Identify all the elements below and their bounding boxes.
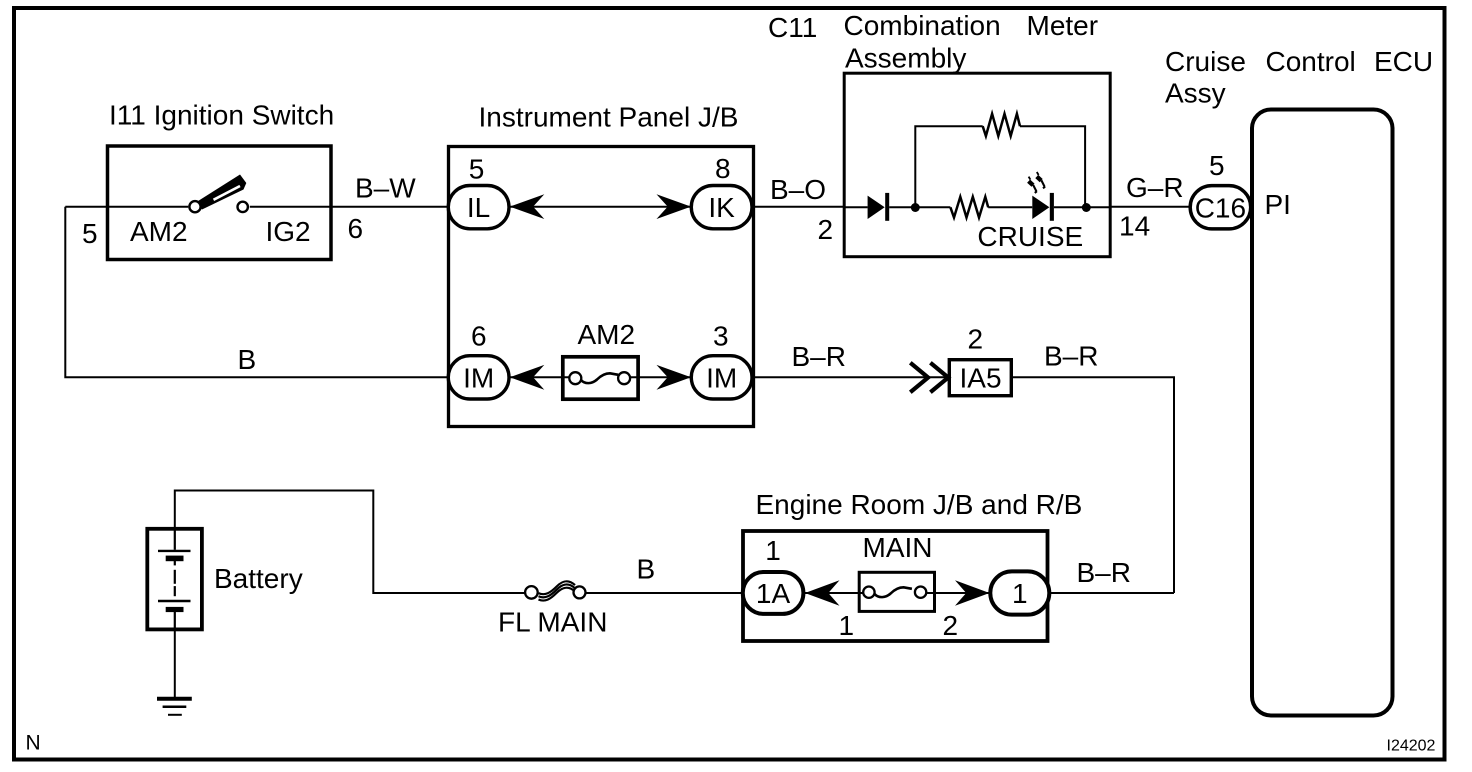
svg-text:IM: IM: [706, 362, 737, 393]
svg-text:I24202: I24202: [1387, 738, 1436, 755]
svg-text:5: 5: [469, 154, 485, 185]
svg-text:2: 2: [818, 214, 834, 245]
svg-text:IA5: IA5: [960, 363, 1002, 394]
svg-text:Combination: Combination: [844, 10, 1001, 41]
svg-text:Assembly: Assembly: [845, 43, 966, 74]
svg-text:ECU: ECU: [1374, 46, 1433, 77]
svg-text:B–W: B–W: [355, 173, 416, 204]
svg-text:B–R: B–R: [1044, 341, 1098, 372]
svg-text:B–O: B–O: [770, 174, 826, 205]
svg-text:Control: Control: [1266, 46, 1356, 77]
svg-text:IK: IK: [708, 192, 735, 223]
svg-text:B: B: [637, 554, 656, 585]
svg-text:1: 1: [839, 610, 855, 641]
svg-text:G–R: G–R: [1126, 172, 1184, 203]
svg-text:1: 1: [765, 535, 781, 566]
svg-text:B–R: B–R: [1077, 557, 1131, 588]
svg-text:3: 3: [713, 321, 729, 352]
svg-text:AM2: AM2: [578, 319, 636, 350]
svg-text:Instrument Panel J/B: Instrument Panel J/B: [479, 102, 739, 133]
svg-text:Meter: Meter: [1027, 10, 1099, 41]
svg-text:PI: PI: [1265, 189, 1291, 220]
svg-text:1A: 1A: [756, 578, 791, 609]
svg-text:B: B: [238, 344, 257, 375]
svg-text:14: 14: [1119, 210, 1150, 241]
svg-text:Engine Room J/B and R/B: Engine Room J/B and R/B: [756, 489, 1083, 520]
svg-text:IL: IL: [467, 192, 490, 223]
svg-text:C16: C16: [1195, 192, 1246, 223]
svg-text:CRUISE: CRUISE: [977, 221, 1083, 252]
svg-text:Assy: Assy: [1165, 78, 1226, 109]
svg-text:2: 2: [968, 323, 984, 354]
svg-text:Battery: Battery: [214, 563, 303, 594]
svg-text:Cruise: Cruise: [1165, 46, 1246, 77]
svg-text:AM2: AM2: [130, 216, 188, 247]
svg-text:8: 8: [715, 153, 731, 184]
svg-text:5: 5: [82, 218, 98, 249]
svg-text:MAIN: MAIN: [863, 532, 933, 563]
svg-text:5: 5: [1209, 150, 1225, 181]
svg-text:6: 6: [348, 213, 364, 244]
svg-text:IG2: IG2: [266, 216, 311, 247]
svg-text:IM: IM: [463, 362, 494, 393]
svg-text:1: 1: [1012, 578, 1028, 609]
svg-text:C11: C11: [768, 12, 817, 43]
svg-text:N: N: [26, 732, 41, 755]
svg-text:I11 Ignition Switch: I11 Ignition Switch: [109, 99, 334, 130]
svg-text:6: 6: [471, 321, 487, 352]
svg-text:B–R: B–R: [792, 341, 846, 372]
svg-text:FL MAIN: FL MAIN: [498, 606, 607, 637]
svg-text:2: 2: [943, 610, 959, 641]
